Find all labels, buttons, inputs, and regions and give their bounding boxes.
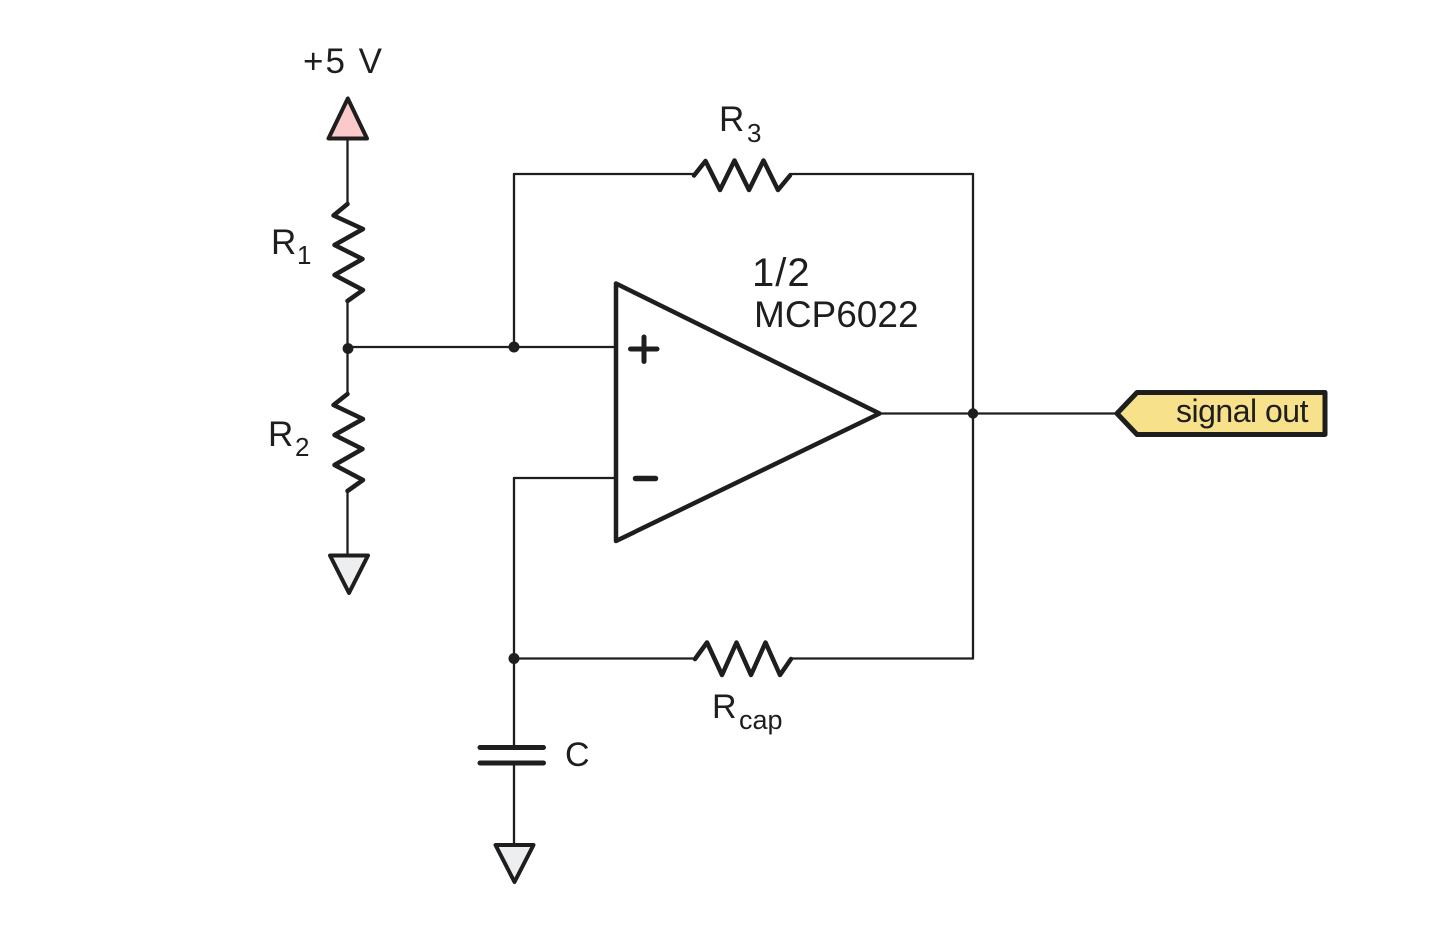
label Rcap (712, 688, 783, 735)
wire (514, 173, 694, 175)
svg-text:R: R (719, 100, 744, 139)
resistor R1 (334, 204, 364, 301)
svg-text:2: 2 (295, 432, 309, 462)
wire (346, 491, 348, 555)
svg-text:cap: cap (739, 705, 783, 735)
svg-text:R: R (271, 223, 296, 262)
signal out flag (1117, 393, 1325, 435)
resistor Rcap (695, 643, 791, 676)
svg-text:signal out: signal out (1176, 393, 1309, 429)
wire (513, 478, 515, 659)
svg-text:MCP6022: MCP6022 (754, 294, 919, 335)
svg-text:R: R (712, 688, 737, 726)
capacitor C (480, 748, 544, 764)
svg-text:1: 1 (297, 240, 311, 270)
node C (output junction) (968, 408, 978, 418)
svg-text:1/2: 1/2 (752, 251, 811, 295)
wire (513, 659, 515, 746)
wire (791, 657, 973, 659)
wire (880, 412, 1119, 414)
resistor R2 (334, 394, 364, 491)
svg-text:C: C (565, 736, 590, 774)
wire (346, 301, 348, 394)
label 1/2 MCP6022 (752, 251, 919, 335)
ground (496, 845, 534, 882)
op-amp U1 (616, 284, 880, 542)
wire (790, 173, 973, 175)
svg-text:R: R (268, 415, 293, 454)
label R2 (268, 415, 309, 462)
svg-text:+5 V: +5 V (303, 42, 384, 81)
wire (513, 174, 515, 347)
svg-text:3: 3 (747, 118, 761, 148)
label R3 (719, 100, 761, 148)
node B (non-inverting input junction) (509, 342, 520, 353)
wire (348, 346, 617, 348)
wire (514, 477, 616, 479)
wire (514, 657, 695, 659)
resistor R3 (694, 161, 790, 191)
node A (divider tap) (343, 343, 354, 354)
label R1 (271, 223, 311, 270)
wire (972, 174, 974, 659)
node D (feedback junction) (509, 653, 520, 664)
ground (330, 556, 368, 594)
wire (346, 139, 348, 204)
wire (513, 765, 515, 845)
power symbol +5V (329, 99, 368, 139)
